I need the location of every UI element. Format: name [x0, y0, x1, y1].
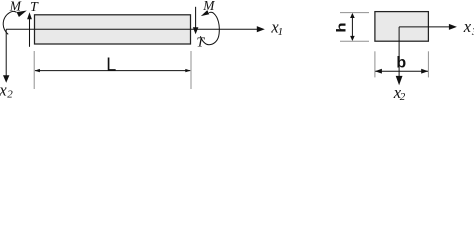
svg-text:2: 2 — [400, 91, 406, 102]
svg-text:b: b — [396, 54, 406, 71]
svg-text:M: M — [9, 0, 22, 15]
svg-text:T: T — [196, 36, 205, 51]
svg-text:x: x — [463, 17, 472, 36]
svg-text:h: h — [335, 22, 349, 32]
svg-text:T: T — [30, 0, 39, 15]
svg-text:L: L — [106, 55, 116, 75]
svg-text:M: M — [202, 0, 215, 14]
svg-text:1: 1 — [278, 26, 284, 38]
svg-text:2: 2 — [7, 89, 13, 101]
